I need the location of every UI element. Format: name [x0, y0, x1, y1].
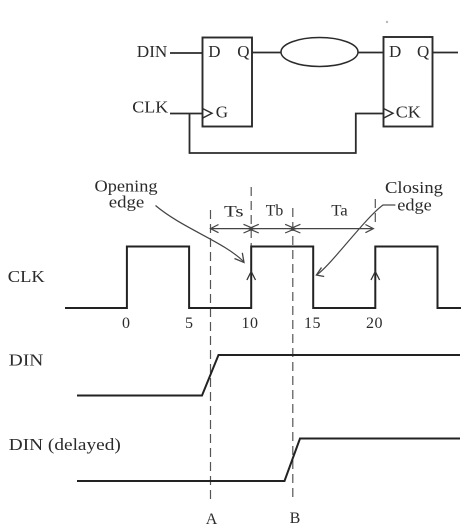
- wire CLK to latch U1 G input: [170, 113, 203, 115]
- delay element ellipse: [281, 38, 358, 67]
- arrowhead of Closing edge leader: [316, 268, 324, 277]
- svg-text:DIN (delayed): DIN (delayed): [9, 435, 121, 454]
- CLK waveform: [65, 247, 461, 309]
- svg-text:CLK: CLK: [8, 267, 46, 286]
- crossing arrowheads at edge 10: [244, 224, 259, 233]
- wire latch U1 Q output to delay element: [252, 52, 281, 54]
- arrowhead left at A: [211, 225, 219, 233]
- dashed tick at rising edge 10: [250, 187, 252, 246]
- dashed line B (vertical): [292, 208, 294, 500]
- svg-text:G: G: [216, 103, 228, 122]
- wire delay element to flip-flop U2 D input: [358, 52, 384, 54]
- svg-text:D: D: [208, 42, 220, 61]
- dashed tick at rising edge 20: [374, 199, 376, 222]
- svg-text:5: 5: [185, 315, 193, 332]
- leader curve from Opening edge to rising edge at 10: [156, 206, 244, 262]
- DIN waveform: [77, 355, 460, 396]
- leader curve from Closing edge to falling edge at 15: [316, 205, 383, 275]
- crossing arrowheads at B: [285, 224, 300, 233]
- DIN delayed waveform: [77, 439, 460, 482]
- svg-text:Ts: Ts: [224, 204, 244, 221]
- leader line from Closing edge label: [383, 204, 396, 206]
- latch U1 body: [203, 38, 253, 127]
- latch U1 gate triangle: [203, 109, 212, 118]
- wire flip-flop U2 Q output: [433, 52, 459, 54]
- up arrowhead on rising edge at 10: [247, 272, 256, 281]
- svg-text:edge: edge: [397, 196, 432, 215]
- stray dot artifact: [386, 21, 388, 23]
- flip-flop U2 body: [384, 37, 433, 127]
- svg-text:CK: CK: [396, 103, 422, 122]
- svg-text:20: 20: [366, 315, 383, 332]
- svg-text:Closing: Closing: [385, 178, 444, 197]
- svg-text:Tb: Tb: [266, 203, 284, 220]
- wire CLK branch to flip-flop U2 CK input: [190, 114, 384, 154]
- svg-text:DIN: DIN: [137, 42, 168, 61]
- up arrowhead on rising edge at 20: [371, 272, 380, 281]
- svg-text:B: B: [290, 510, 301, 526]
- svg-text:0: 0: [122, 315, 130, 332]
- svg-text:DIN: DIN: [9, 351, 44, 370]
- svg-text:15: 15: [304, 315, 321, 332]
- svg-text:Ta: Ta: [331, 203, 348, 220]
- svg-text:edge: edge: [109, 193, 145, 212]
- arrowhead right at edge 20: [365, 225, 373, 233]
- interval arrow line Ts Tb Ta: [211, 228, 374, 230]
- dashed line A (vertical): [210, 210, 212, 503]
- flip-flop U2 clock triangle: [384, 109, 393, 118]
- arrowhead of Opening edge leader: [235, 253, 245, 263]
- svg-text:Q: Q: [417, 42, 429, 61]
- svg-text:Q: Q: [237, 42, 249, 61]
- svg-text:A: A: [206, 511, 218, 526]
- wire DIN to latch U1 D input: [170, 52, 203, 54]
- svg-text:D: D: [389, 42, 401, 61]
- svg-text:10: 10: [242, 315, 259, 332]
- svg-text:CLK: CLK: [132, 98, 169, 117]
